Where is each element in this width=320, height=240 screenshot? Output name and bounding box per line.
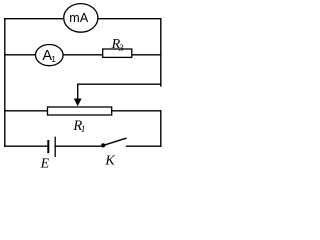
wire: slider drop stem <box>77 84 79 99</box>
wire: bottom row left segment (left bus to battery) <box>5 145 48 147</box>
wire: left vertical bus <box>4 19 6 147</box>
ammeter A1 <box>36 45 64 66</box>
wire: wiper feed horizontal (right bus to slider drop) <box>78 83 161 85</box>
milliammeter mA <box>64 4 98 33</box>
svg-text:K: K <box>104 154 115 169</box>
svg-text:3: 3 <box>118 44 124 54</box>
rheostat wiper arrowhead <box>74 99 82 107</box>
wire: right vertical upper (top row to wiper feed) <box>160 19 162 86</box>
wire: switch to right bus <box>127 145 161 147</box>
wire: top row right segment <box>98 18 161 20</box>
wire: top row left segment <box>5 18 64 20</box>
wire: right vertical lower (rheostat row to bottom row) <box>160 111 162 146</box>
battery E <box>40 137 56 172</box>
switch K <box>101 138 127 168</box>
wire: rheostat left lead <box>5 110 48 112</box>
svg-text:1: 1 <box>81 125 86 135</box>
wire: row2 right segment (R3 to right bus) <box>132 54 161 56</box>
rheostat R1 (slide-wire resistor) <box>48 107 112 135</box>
wire: row2 left segment (left bus to A1) <box>5 54 36 56</box>
wire: row2 middle segment (A1 to R3) <box>63 54 103 56</box>
wire: rheostat right lead <box>112 110 161 112</box>
resistor R3 <box>103 37 132 58</box>
wire: battery to switch <box>55 145 101 147</box>
svg-text:mA: mA <box>69 11 89 25</box>
svg-text:E: E <box>40 156 50 169</box>
svg-text:1: 1 <box>51 54 56 64</box>
